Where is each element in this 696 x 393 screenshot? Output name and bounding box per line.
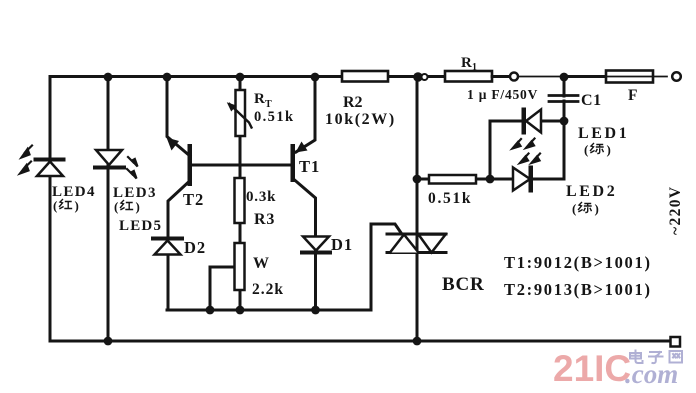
svg-text:0.3k: 0.3k: [246, 189, 276, 205]
wire T2 emitter branch: [167, 77, 190, 157]
svg-text:R2: R2: [343, 94, 363, 111]
junction RT top: [236, 73, 245, 82]
svg-text:~220V: ~220V: [667, 185, 684, 235]
svg-text:T2:9013(B>1001): T2:9013(B>1001): [504, 280, 652, 299]
junction D1 on inner rail: [311, 306, 320, 315]
wire D2 to inner rail corner: [167, 255, 170, 310]
svg-text:(: (: [53, 198, 57, 213]
resistor R1: [445, 55, 510, 82]
wire LED3 branch: [107, 77, 110, 342]
wire T1 collector to D1 rail: [294, 180, 316, 311]
svg-text:LED1: LED1: [578, 125, 629, 142]
junction 0.51k left: [413, 175, 422, 184]
svg-text:T1:9012(B>1001): T1:9012(B>1001): [504, 253, 652, 272]
wire T2 lower lead to D2: [168, 183, 188, 237]
junction W bottom on inner rail: [236, 306, 245, 315]
resistor RT (thermistor): [227, 90, 295, 136]
wire 0.51k right lead: [476, 178, 490, 181]
junction wiper on inner rail: [206, 306, 215, 315]
svg-text:): ): [607, 142, 611, 157]
svg-text:): ): [75, 198, 79, 213]
transistor T1: [291, 142, 308, 183]
svg-text:): ): [136, 199, 140, 214]
LED4 emission arrows: [20, 146, 32, 174]
junction LED1 / C1 rail: [560, 117, 569, 126]
wire RT to base junction to R3: [239, 136, 242, 178]
potentiometer W: [235, 243, 285, 298]
svg-text:W: W: [253, 255, 269, 272]
svg-text:D2: D2: [184, 238, 206, 257]
terminal circle top right: [672, 72, 681, 81]
junction C1 top: [560, 73, 569, 82]
label (green) 2: [572, 201, 599, 216]
resistor 0.51k: [428, 175, 476, 207]
svg-text:1 μ F/450V: 1 μ F/450V: [467, 87, 538, 102]
wire LED2 row: [490, 178, 513, 181]
wire C1 node to fuse: [564, 75, 606, 78]
transistor T2: [167, 138, 193, 187]
svg-text:R3: R3: [254, 211, 275, 228]
node BCR branch with connector crescent: [413, 72, 423, 82]
wire inner bottom rail: [167, 309, 371, 312]
label (green) 1: [584, 142, 611, 157]
svg-text:LED5: LED5: [119, 218, 162, 234]
svg-text:T2: T2: [183, 190, 204, 209]
label (red): [53, 198, 79, 213]
fuse F: [598, 71, 667, 105]
diode D2 (LED5): [153, 238, 206, 257]
LED LED2: [513, 166, 533, 193]
watermark dianziwang: [630, 351, 682, 364]
LED1 emission arrows: [513, 139, 535, 149]
svg-text:10k(2W): 10k(2W): [325, 111, 396, 128]
svg-text:(: (: [114, 199, 118, 214]
junction LED3 bottom: [104, 337, 113, 346]
terminal square bottom right: [671, 337, 681, 347]
wire BCR main vertical: [416, 77, 419, 342]
label (red) 2: [114, 199, 140, 214]
svg-text:): ): [595, 201, 599, 216]
svg-text:1: 1: [472, 62, 477, 73]
wire W wiper arm: [210, 267, 234, 310]
wire 0.51k left lead: [417, 178, 429, 181]
svg-text:21IC: 21IC: [553, 348, 631, 389]
svg-text:R: R: [254, 91, 265, 107]
junction BCR bottom: [413, 337, 422, 346]
svg-text:F: F: [628, 87, 637, 104]
wire RT branch top: [239, 77, 242, 91]
LED LED1: [522, 108, 542, 135]
wire top rail thin segment to C1 node: [518, 76, 564, 78]
wire top rail: [50, 75, 510, 78]
wire LED1 row: [490, 120, 522, 123]
svg-text:C1: C1: [581, 92, 602, 109]
svg-text:2.2k: 2.2k: [252, 281, 284, 298]
LED3 emission arrows: [127, 157, 138, 179]
wire R3 to W: [239, 223, 242, 243]
svg-text:(: (: [584, 142, 588, 157]
resistor R3: [235, 178, 277, 228]
wire LED pair right rail: [563, 101, 566, 179]
svg-text:LED2: LED2: [566, 183, 617, 200]
wire BCR gate from inner rail: [371, 224, 402, 310]
junction LED3 top: [104, 73, 113, 82]
junction 0.51k right / LED rail: [486, 175, 495, 184]
svg-text:R: R: [461, 55, 472, 71]
capacitor C1: [549, 92, 602, 109]
svg-text:T1: T1: [299, 157, 320, 176]
wire LED pair left rail: [489, 121, 492, 179]
svg-text:(: (: [572, 201, 576, 216]
junction T2 emitter top: [163, 73, 172, 82]
resistor R2: [325, 71, 445, 128]
wire T1 emitter branch: [296, 77, 315, 153]
wire bottom rail: [50, 340, 670, 343]
LED LED3: [95, 150, 124, 168]
wire left rail: [49, 77, 52, 342]
junction T1 emitter top: [311, 73, 320, 82]
triac BCR: [387, 234, 485, 295]
svg-text:D1: D1: [331, 235, 353, 254]
svg-text:0.51k: 0.51k: [254, 109, 294, 125]
LED2 emission arrows: [520, 154, 540, 164]
wire C1 top stub: [563, 77, 566, 97]
diode D1: [302, 235, 353, 254]
svg-text:0.51k: 0.51k: [428, 190, 472, 207]
svg-text:BCR: BCR: [442, 274, 485, 295]
connector circle node: [510, 73, 518, 81]
LED LED4: [36, 160, 64, 177]
wire base link T2-T1: [191, 164, 290, 167]
wire W bottom stub: [239, 290, 242, 310]
